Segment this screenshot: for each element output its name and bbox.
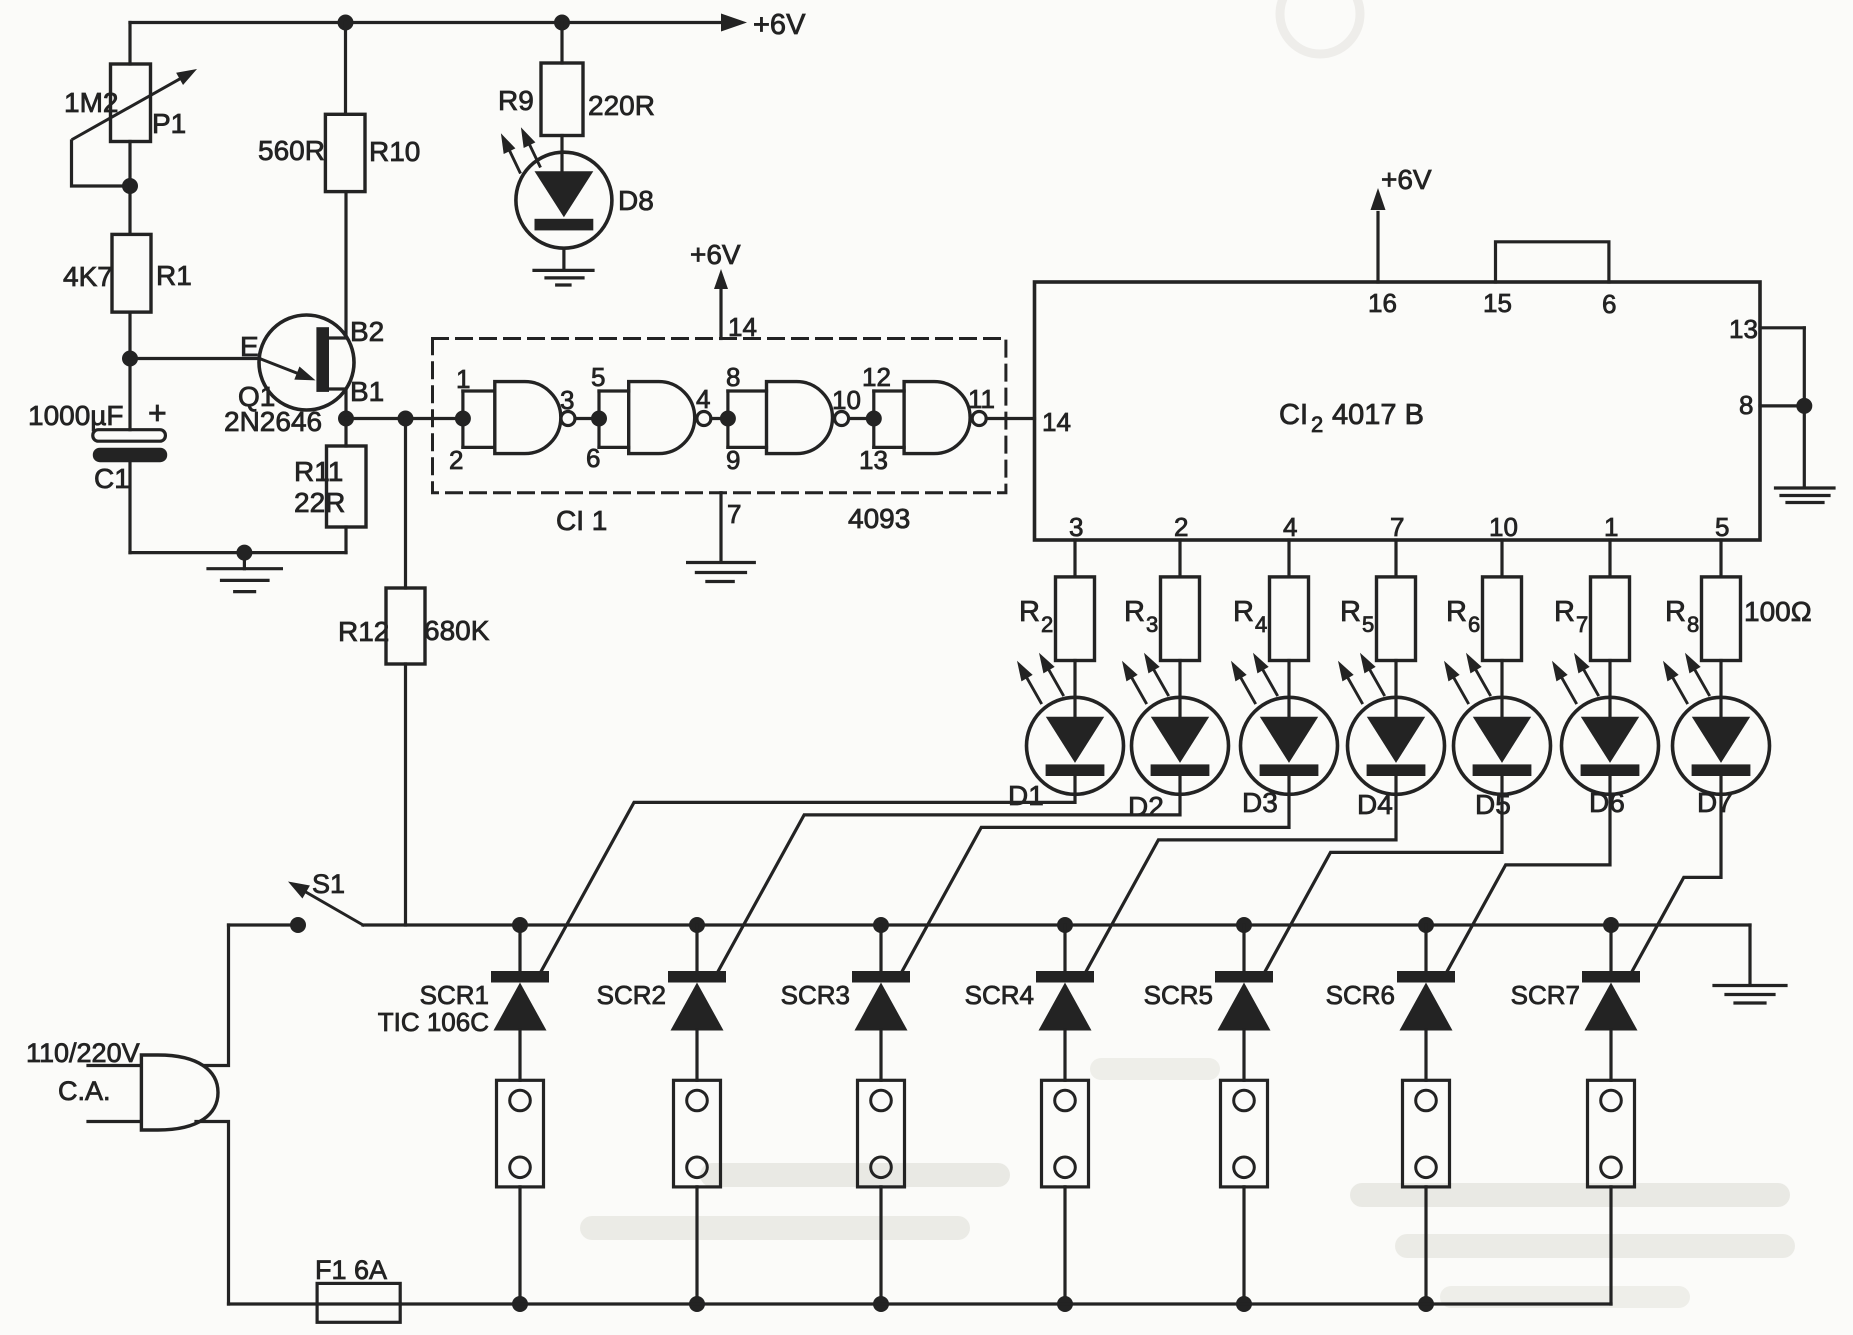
svg-text:12: 12 xyxy=(862,362,891,392)
label 7 CI1 xyxy=(727,499,741,529)
wire D2 to SCR2 gate xyxy=(715,776,1180,977)
LED D8 xyxy=(501,127,612,248)
svg-text:13: 13 xyxy=(1729,314,1758,344)
LED D6 xyxy=(1552,653,1659,795)
svg-text:D5: D5 xyxy=(1475,789,1511,820)
junction dot P1 bottom xyxy=(122,178,138,194)
wire plug bottom to fuse xyxy=(196,1122,229,1305)
label SCR4 xyxy=(965,980,1034,1010)
svg-text:CI: CI xyxy=(1279,399,1308,431)
wire rail to SCR7 xyxy=(1609,925,1612,971)
svg-text:6: 6 xyxy=(1468,612,1480,637)
wire R12 to S1 rail xyxy=(404,664,407,925)
svg-text:SCR4: SCR4 xyxy=(965,980,1034,1010)
label Q1 xyxy=(238,381,275,412)
svg-text:SCR6: SCR6 xyxy=(1326,980,1395,1010)
resistor R2 xyxy=(1056,577,1095,661)
svg-text:2: 2 xyxy=(1041,612,1053,637)
junction dot lamp L3 bottom xyxy=(873,1296,889,1312)
label +6V CI1 pin14 xyxy=(690,239,741,270)
svg-text:R10: R10 xyxy=(369,136,420,167)
label R7 xyxy=(1554,596,1588,637)
wire D3 to SCR3 gate xyxy=(899,776,1289,977)
svg-text:5: 5 xyxy=(591,362,605,392)
junction dot SCR7 anode rail xyxy=(1603,917,1619,933)
svg-text:+6V: +6V xyxy=(690,239,741,270)
svg-text:R1: R1 xyxy=(156,260,192,291)
wire SCR6 to lamp xyxy=(1424,1031,1427,1081)
wire R7 to D6 xyxy=(1608,661,1611,717)
junction dot SCR2 anode rail xyxy=(689,917,705,933)
wire C1 to bottom xyxy=(128,462,131,553)
label R6 xyxy=(1446,596,1480,637)
label 8 CI2 xyxy=(1739,390,1753,420)
svg-text:1: 1 xyxy=(456,364,470,394)
svg-text:11: 11 xyxy=(968,384,995,414)
label R5 xyxy=(1340,596,1374,637)
svg-text:14: 14 xyxy=(1042,407,1071,437)
svg-text:560R: 560R xyxy=(258,135,325,166)
svg-text:7: 7 xyxy=(727,499,741,529)
lamp socket L5 xyxy=(1221,1080,1268,1187)
label SCR1 xyxy=(420,980,489,1010)
nand gate U1b xyxy=(599,382,711,454)
wire S1 left xyxy=(229,923,292,926)
junction dot SCR1 anode rail xyxy=(512,917,528,933)
label 1000uF xyxy=(28,400,124,431)
label D2 xyxy=(1128,791,1164,822)
junction dot SCR4 anode rail xyxy=(1057,917,1073,933)
svg-text:4: 4 xyxy=(1255,612,1267,637)
junction dot lamp L1 bottom xyxy=(512,1296,528,1312)
SCR4 xyxy=(1036,971,1094,1031)
svg-text:R: R xyxy=(1124,596,1145,628)
svg-text:220R: 220R xyxy=(588,90,655,121)
wire plug prong bottom xyxy=(88,1120,141,1123)
svg-text:6: 6 xyxy=(1602,289,1616,319)
svg-text:2: 2 xyxy=(1174,512,1188,542)
svg-text:D2: D2 xyxy=(1128,791,1164,822)
label C1 xyxy=(94,463,130,494)
svg-text:3: 3 xyxy=(560,385,574,415)
label 6 xyxy=(1602,289,1616,319)
wire node to C1 xyxy=(128,359,131,430)
wire SCR1 to lamp xyxy=(518,1031,521,1081)
label 13 CI2 xyxy=(1729,314,1758,344)
wire lamp L5 to bottom rail xyxy=(1242,1187,1245,1304)
svg-text:4: 4 xyxy=(696,384,710,414)
wire B2 lead xyxy=(329,192,346,338)
wire R9 to D8 xyxy=(560,136,563,172)
wire E lead xyxy=(130,357,260,360)
svg-text:9: 9 xyxy=(726,445,740,475)
svg-text:8: 8 xyxy=(1687,612,1699,637)
SCR3 xyxy=(852,971,910,1031)
wire R3 to D2 xyxy=(1178,661,1181,717)
wire CI2 pins 15-6 bracket xyxy=(1496,242,1609,282)
lamp socket L3 xyxy=(858,1080,905,1187)
label +6V top xyxy=(753,9,806,41)
SCR6 xyxy=(1397,971,1455,1031)
label B1 xyxy=(350,376,384,407)
LED D4 xyxy=(1338,653,1445,795)
lamp socket L2 xyxy=(674,1080,721,1187)
wire R6 to D5 xyxy=(1500,661,1503,717)
LED D5 xyxy=(1444,653,1551,795)
label D1 xyxy=(1008,780,1044,811)
label 1M2 xyxy=(64,87,118,118)
label 22R xyxy=(294,487,345,518)
junction dot pin8 xyxy=(1796,398,1812,414)
resistor R5 xyxy=(1377,577,1416,661)
svg-text:CI 1: CI 1 xyxy=(556,505,607,536)
svg-text:14: 14 xyxy=(728,312,757,342)
label SCR5 xyxy=(1144,980,1213,1010)
label F1 6A xyxy=(315,1255,387,1285)
wire gate1 to gate2 xyxy=(575,411,607,427)
junction dot SCR3 anode rail xyxy=(873,917,889,933)
label R1 xyxy=(156,260,192,291)
svg-text:SCR2: SCR2 xyxy=(597,980,666,1010)
svg-text:B1: B1 xyxy=(350,376,384,407)
svg-text:1000µF: 1000µF xyxy=(28,400,124,431)
wire R11 to bottom xyxy=(344,527,347,553)
wire gate3 to gate4 xyxy=(849,411,882,427)
wire P1 wiper elbow xyxy=(72,141,131,186)
svg-text:TIC 106C: TIC 106C xyxy=(378,1007,489,1037)
label R12 xyxy=(338,616,389,647)
resistor R6 xyxy=(1483,577,1522,661)
svg-text:C1: C1 xyxy=(94,463,130,494)
junction dot lamp L6 bottom xyxy=(1418,1296,1434,1312)
svg-text:+6V: +6V xyxy=(753,9,806,41)
wire CI2 pin13 xyxy=(1760,326,1804,329)
resistor R11 xyxy=(327,446,367,527)
junction dot SCR5 anode rail xyxy=(1236,917,1252,933)
svg-text:S1: S1 xyxy=(312,869,345,899)
label D4 xyxy=(1357,789,1393,820)
label E xyxy=(240,331,259,362)
wire rail to right ground xyxy=(1748,925,1751,985)
label 15 xyxy=(1483,288,1512,318)
junction dot lamp L4 bottom xyxy=(1057,1296,1073,1312)
svg-text:SCR7: SCR7 xyxy=(1511,980,1580,1010)
wire SCR5 to lamp xyxy=(1242,1031,1245,1081)
ground CI2 pin8 xyxy=(1776,488,1835,503)
svg-text:4K7: 4K7 xyxy=(63,261,113,292)
label R2 xyxy=(1019,596,1053,637)
label TIC 106C xyxy=(378,1007,489,1037)
svg-text:+: + xyxy=(148,395,167,431)
wire B1 lead xyxy=(329,389,346,419)
svg-text:3: 3 xyxy=(1146,612,1158,637)
wire SCR2 to lamp xyxy=(695,1031,698,1081)
ground right rail xyxy=(1714,986,1786,1004)
svg-text:R: R xyxy=(1233,596,1254,628)
svg-text:D8: D8 xyxy=(618,185,654,216)
svg-text:R12: R12 xyxy=(338,616,389,647)
svg-text:4: 4 xyxy=(1283,512,1297,542)
wire R2 to D1 xyxy=(1073,661,1076,717)
ground left xyxy=(208,553,281,592)
wire SCR7 to lamp xyxy=(1609,1031,1612,1081)
label C.A. xyxy=(58,1076,111,1106)
label D7 xyxy=(1697,787,1733,818)
svg-text:D6: D6 xyxy=(1589,787,1625,818)
wire tap to R12 xyxy=(404,419,407,589)
wire R8 to D7 xyxy=(1719,661,1722,717)
LED D2 xyxy=(1122,653,1229,795)
wire B1 to CI1 xyxy=(346,417,463,420)
svg-text:2: 2 xyxy=(449,445,463,475)
wire CI2 pin16 +6V xyxy=(1371,188,1386,282)
label 680K xyxy=(424,615,490,646)
svg-text:SCR3: SCR3 xyxy=(781,980,850,1010)
arrow +6V right xyxy=(721,14,747,32)
wire through fuse xyxy=(317,1302,400,1305)
junction dot ground tap xyxy=(236,545,252,561)
wire bottom rail xyxy=(229,1302,1612,1305)
label 100ohm xyxy=(1744,596,1812,627)
svg-text:B2: B2 xyxy=(350,316,384,347)
svg-text:C.A.: C.A. xyxy=(58,1076,111,1106)
label 2N2646 xyxy=(224,406,322,437)
lamp socket L1 xyxy=(497,1080,544,1187)
ground CI1 pin7 xyxy=(688,563,755,582)
wire gate4 out to CI2 xyxy=(986,417,1034,420)
wire lamp L1 to bottom rail xyxy=(518,1187,521,1304)
wire CI1 pin 7 xyxy=(719,493,722,561)
wire rail to R9 xyxy=(560,23,563,64)
svg-text:SCR1: SCR1 xyxy=(420,980,489,1010)
junction dot SCR6 anode rail xyxy=(1418,917,1434,933)
label D6 xyxy=(1589,787,1625,818)
label R9 xyxy=(498,85,534,116)
label 4K7 xyxy=(63,261,113,292)
svg-text:8: 8 xyxy=(726,362,740,392)
nand gate U1c xyxy=(728,382,849,454)
label S1 xyxy=(312,869,345,899)
svg-text:R: R xyxy=(1019,596,1040,628)
svg-text:22R: 22R xyxy=(294,487,345,518)
svg-text:15: 15 xyxy=(1483,288,1512,318)
wire R4 to D3 xyxy=(1287,661,1290,717)
wire S1 rail xyxy=(363,923,1750,926)
IC CI1 dashed box xyxy=(433,339,1006,493)
svg-text:R9: R9 xyxy=(498,85,534,116)
LED D7 xyxy=(1663,653,1770,795)
wire SCR4 to lamp xyxy=(1063,1031,1066,1081)
ground D8 xyxy=(534,270,593,285)
resistor R7 xyxy=(1591,577,1630,661)
wire CI2 pin8 xyxy=(1760,328,1804,487)
node E junction xyxy=(122,351,138,367)
wire CI1 pin 14 xyxy=(714,269,728,339)
LED D3 xyxy=(1231,653,1338,795)
svg-text:D7: D7 xyxy=(1697,787,1733,818)
wire plug prong top xyxy=(88,1064,141,1067)
label 16 xyxy=(1368,288,1397,318)
svg-text:SCR5: SCR5 xyxy=(1144,980,1213,1010)
scan bleed-through (decorative) xyxy=(580,0,1795,1308)
svg-text:5: 5 xyxy=(1362,612,1374,637)
label 110/220V xyxy=(26,1038,140,1068)
wire D6 to SCR6 gate xyxy=(1444,776,1610,977)
svg-text:10: 10 xyxy=(832,385,861,415)
label CI2 4017B xyxy=(1279,399,1424,437)
junction dot R9 top xyxy=(554,15,570,31)
wire gate2 to gate3 xyxy=(711,411,736,427)
wire rail to SCR5 xyxy=(1242,925,1245,971)
lamp socket L4 xyxy=(1042,1080,1089,1187)
svg-text:8: 8 xyxy=(1739,390,1753,420)
svg-text:R: R xyxy=(1446,596,1467,628)
svg-text:P1: P1 xyxy=(152,108,186,139)
resistor R8 xyxy=(1702,577,1741,661)
wire D4 to SCR4 gate xyxy=(1083,776,1396,977)
label +6V CI2 xyxy=(1381,164,1432,195)
resistor R3 xyxy=(1161,577,1200,661)
label SCR2 xyxy=(597,980,666,1010)
junction dot lamp L2 bottom xyxy=(689,1296,705,1312)
label D8 xyxy=(618,185,654,216)
label SCR6 xyxy=(1326,980,1395,1010)
label 4093 xyxy=(848,503,910,534)
wire rail to SCR2 xyxy=(695,925,698,971)
wire D7 to SCR7 gate xyxy=(1629,776,1721,977)
label R11 xyxy=(294,456,343,487)
svg-text:R: R xyxy=(1340,596,1361,628)
label D3 xyxy=(1242,787,1278,818)
potentiometer P1 xyxy=(73,64,197,142)
svg-text:7: 7 xyxy=(1576,612,1588,637)
SCR2 xyxy=(668,971,726,1031)
resistor R4 xyxy=(1270,577,1309,661)
wire R5 to D4 xyxy=(1394,661,1397,717)
svg-text:4093: 4093 xyxy=(848,503,910,534)
svg-text:13: 13 xyxy=(859,445,888,475)
fuse F1 xyxy=(317,1283,400,1322)
svg-text:F1 6A: F1 6A xyxy=(315,1255,387,1285)
svg-text:2N2646: 2N2646 xyxy=(224,406,322,437)
svg-text:10: 10 xyxy=(1489,512,1518,542)
label R4 xyxy=(1233,596,1267,637)
junction dot R10 top xyxy=(338,15,354,31)
LED D1 xyxy=(1017,653,1124,795)
svg-text:16: 16 xyxy=(1368,288,1397,318)
svg-text:100Ω: 100Ω xyxy=(1744,596,1812,627)
wire rail to SCR1 xyxy=(518,925,521,971)
label 220R xyxy=(588,90,655,121)
wire SCR3 to lamp xyxy=(879,1031,882,1081)
svg-text:4017 B: 4017 B xyxy=(1332,399,1424,431)
wire lamp L2 to bottom rail xyxy=(695,1187,698,1304)
svg-text:1: 1 xyxy=(1604,512,1618,542)
wire lamp L6 to bottom rail xyxy=(1424,1187,1427,1304)
SCR1 xyxy=(491,971,549,1031)
lamp socket L6 xyxy=(1403,1080,1450,1187)
resistor R10 xyxy=(325,114,365,191)
label 14 CI2 xyxy=(1042,407,1071,437)
svg-text:110/220V: 110/220V xyxy=(26,1038,140,1068)
wire D1 to SCR1 gate xyxy=(538,776,1075,977)
svg-text:R11: R11 xyxy=(294,456,343,487)
label R3 xyxy=(1124,596,1158,637)
wire lamp L7 to bottom rail xyxy=(1609,1187,1612,1304)
svg-text:D1: D1 xyxy=(1008,780,1044,811)
svg-text:3: 3 xyxy=(1069,512,1083,542)
IC CI2 4017B box xyxy=(1035,282,1761,540)
label SCR3 xyxy=(781,980,850,1010)
svg-text:6: 6 xyxy=(586,443,600,473)
wire lamp L3 to bottom rail xyxy=(879,1187,882,1304)
wire +6V top rail xyxy=(130,23,733,65)
wire rail to SCR6 xyxy=(1424,925,1427,971)
wires CI2 bottom pins xyxy=(1075,540,1721,577)
resistor R1 xyxy=(112,234,151,312)
lamp socket L7 xyxy=(1588,1080,1635,1187)
label C1 plus xyxy=(148,395,167,431)
wire D8 to ground xyxy=(562,248,565,268)
nand gate U1a xyxy=(463,382,575,454)
svg-text:1M2: 1M2 xyxy=(64,87,118,118)
wire CI1 input xyxy=(455,411,471,427)
svg-text:+6V: +6V xyxy=(1381,164,1432,195)
wire bottom left xyxy=(130,551,346,554)
resistor R12 xyxy=(386,588,425,664)
svg-text:2: 2 xyxy=(1311,412,1323,437)
svg-text:680K: 680K xyxy=(424,615,490,646)
svg-text:E: E xyxy=(240,331,259,362)
svg-text:5: 5 xyxy=(1715,512,1729,542)
resistor R9 xyxy=(541,63,583,136)
AC plug xyxy=(141,1055,218,1130)
wire D5 to SCR5 gate xyxy=(1262,776,1502,977)
label P1 xyxy=(152,108,186,139)
wire R1 to E node xyxy=(128,312,131,358)
nand gate U1d xyxy=(874,382,986,454)
label SCR7 xyxy=(1511,980,1580,1010)
junction dot R12 tap xyxy=(398,411,414,427)
wire rail to SCR3 xyxy=(879,925,882,971)
SCR7 xyxy=(1582,971,1640,1031)
label 560R xyxy=(258,135,325,166)
SCR5 xyxy=(1215,971,1273,1031)
junction dot lamp L5 bottom xyxy=(1236,1296,1252,1312)
switch S1 xyxy=(288,882,363,934)
wire rail to R10 xyxy=(344,23,347,115)
label D5 xyxy=(1475,789,1511,820)
label R8 xyxy=(1665,596,1699,637)
wire plug top to S1 xyxy=(204,925,229,1066)
label CI1 xyxy=(556,505,607,536)
svg-text:R: R xyxy=(1665,596,1686,628)
wire rail to SCR4 xyxy=(1063,925,1066,971)
labels CI1 gate pins xyxy=(449,362,995,475)
wire P1 to R1 xyxy=(128,142,131,235)
svg-text:D4: D4 xyxy=(1357,789,1393,820)
wire B1 to R11 xyxy=(344,419,347,447)
capacitor C1 xyxy=(93,430,167,463)
label 14 CI1 xyxy=(728,312,757,342)
wire lamp L4 to bottom rail xyxy=(1063,1187,1066,1304)
label R10 xyxy=(369,136,420,167)
transistor Q1 2N2646 xyxy=(259,315,354,410)
node B1 junction xyxy=(338,411,354,427)
svg-text:7: 7 xyxy=(1390,512,1404,542)
svg-text:D3: D3 xyxy=(1242,787,1278,818)
label B2 xyxy=(350,316,384,347)
